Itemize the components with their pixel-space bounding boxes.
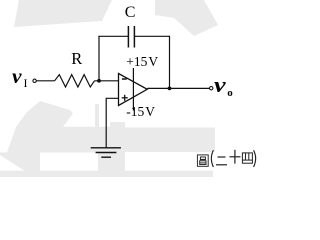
ground symbol — [91, 147, 121, 149]
label C — [125, 5, 136, 21]
caption glyph 二 — [216, 157, 227, 165]
label R — [71, 51, 82, 68]
node junction dot — [97, 79, 101, 83]
watermark left column strip — [95, 104, 99, 127]
node output junction dot — [168, 87, 172, 91]
wire feedback right vertical — [169, 36, 171, 88]
wire resistor to op-amp — [95, 80, 119, 82]
op-amp U1 triangle — [119, 74, 148, 106]
watermark bottom band — [0, 171, 213, 177]
op-amp plus sign — [122, 97, 128, 99]
caption glyph 四 — [242, 153, 252, 163]
capacitor C left plate — [127, 26, 129, 48]
wire input to resistor — [36, 80, 54, 82]
label vi — [12, 68, 22, 88]
op-amp power line — [132, 68, 134, 111]
capacitor C right plate — [133, 26, 135, 48]
watermark right column lower — [98, 153, 125, 172]
watermark big block — [125, 128, 215, 153]
wire feedback top left — [98, 35, 128, 37]
label +15V — [126, 55, 158, 69]
caption glyph 圖 — [197, 155, 208, 166]
label vo — [214, 74, 226, 97]
watermark gray band top-right piece — [155, 0, 218, 36]
wire feedback left vertical — [98, 36, 100, 81]
watermark bottom-left glyph body — [0, 101, 125, 171]
wire op-amp output — [147, 87, 209, 89]
label -15V — [126, 105, 155, 119]
caption paren right — [254, 150, 256, 167]
caption paren left — [211, 150, 213, 167]
op-amp minus sign — [122, 78, 127, 80]
input terminal circle — [33, 79, 36, 82]
resistor R zigzag — [55, 75, 95, 87]
wire feedback top right — [134, 35, 169, 37]
watermark gray band top-left piece — [14, 0, 112, 27]
watermark small patch — [110, 122, 125, 128]
output terminal circle — [210, 87, 213, 90]
wire non-inverting input to ground — [106, 98, 118, 148]
caption glyph 十 — [230, 150, 241, 164]
